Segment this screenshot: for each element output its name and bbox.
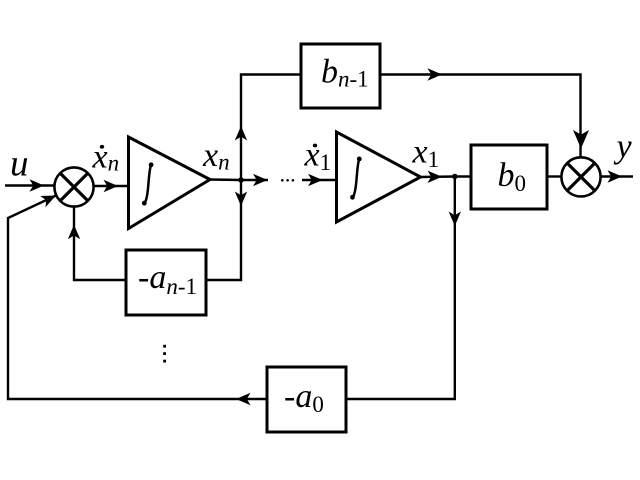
svg-text:u: u — [10, 143, 29, 184]
svg-text:y: y — [614, 128, 633, 165]
